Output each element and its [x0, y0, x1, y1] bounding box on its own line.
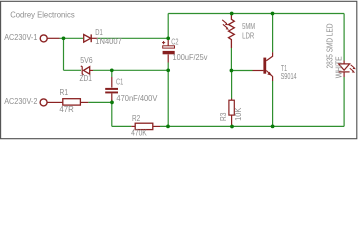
svg-text:100uF/25v: 100uF/25v [173, 53, 208, 62]
svg-text:5V6: 5V6 [80, 56, 93, 65]
svg-text:1N4007: 1N4007 [95, 37, 122, 46]
svg-text:R3: R3 [219, 112, 228, 121]
svg-text:470K: 470K [131, 129, 147, 138]
svg-text:C2: C2 [171, 37, 179, 46]
svg-text:470nF/400V: 470nF/400V [116, 94, 158, 103]
svg-text:2835 SMD LED: 2835 SMD LED [325, 23, 334, 68]
svg-text:AC230V-2: AC230V-2 [4, 97, 38, 106]
svg-text:10K: 10K [234, 107, 243, 121]
svg-text:D1: D1 [95, 28, 103, 37]
svg-text:S9014: S9014 [281, 72, 297, 81]
svg-text:ZD1: ZD1 [80, 74, 93, 83]
svg-text:C1: C1 [116, 77, 124, 86]
svg-text:LDR: LDR [242, 32, 254, 41]
svg-text:WHITE: WHITE [334, 56, 343, 78]
svg-text:R1: R1 [60, 88, 69, 97]
svg-text:R2: R2 [132, 114, 141, 123]
svg-text:Codrey Electronics: Codrey Electronics [10, 10, 75, 20]
svg-text:AC230V-1: AC230V-1 [4, 33, 38, 42]
svg-text:5MM: 5MM [242, 22, 255, 31]
svg-text:47R: 47R [59, 105, 74, 114]
